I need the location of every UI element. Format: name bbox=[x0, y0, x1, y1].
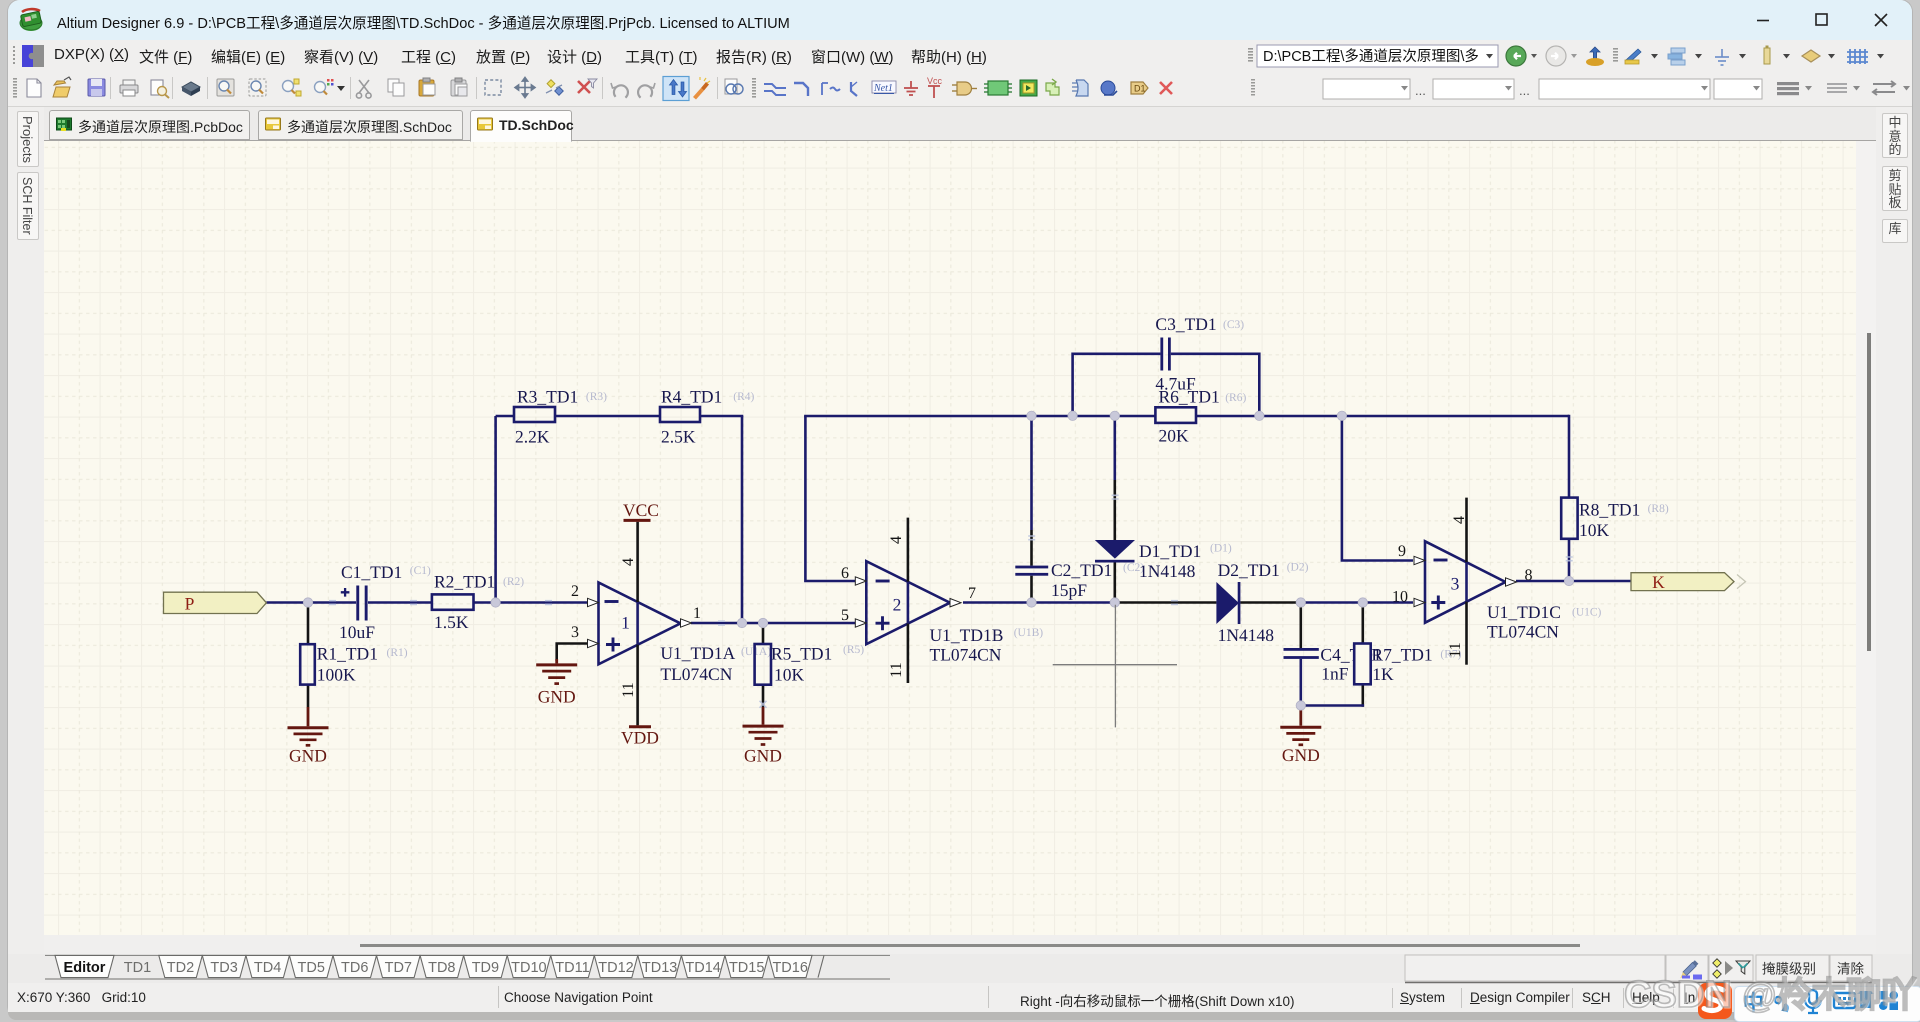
pin 6 arrowhead bbox=[855, 577, 866, 585]
right half of toolbar row2 bbox=[1243, 73, 1912, 106]
svg-text:2.2K: 2.2K bbox=[515, 427, 550, 447]
svg-text:10K: 10K bbox=[774, 665, 805, 685]
wire feedback drop to U1A output bbox=[741, 416, 744, 623]
svg-text:Net1: Net1 bbox=[873, 83, 893, 94]
SCHEMATIC-SVG bbox=[360, 944, 1580, 947]
svg-text:(C1): (C1) bbox=[410, 565, 431, 577]
pin 1 arrowhead bbox=[681, 619, 692, 627]
pin 5 arrowhead bbox=[855, 619, 866, 627]
svg-text:TD8: TD8 bbox=[428, 960, 455, 976]
svg-text:(D2): (D2) bbox=[1287, 562, 1309, 574]
svg-text:15pF: 15pF bbox=[1051, 580, 1087, 600]
diode D1 bbox=[1095, 540, 1135, 559]
wire C2 lower lead bbox=[1030, 576, 1033, 603]
pin 10 arrowhead bbox=[1414, 598, 1425, 606]
svg-text:1N4148: 1N4148 bbox=[1218, 625, 1275, 645]
svg-text:(C3): (C3) bbox=[1223, 319, 1244, 331]
svg-text:11: 11 bbox=[888, 662, 905, 677]
TITLEBAR-CONTENT bbox=[12, 44, 46, 68]
capacitor C4 bbox=[1284, 648, 1319, 651]
wire U1B output to D2 bbox=[963, 601, 1115, 604]
svg-text:R7_TD1: R7_TD1 bbox=[1371, 645, 1432, 665]
svg-text:D1_TD1: D1_TD1 bbox=[1139, 541, 1201, 561]
svg-text:10uF: 10uF bbox=[339, 622, 375, 642]
svg-text:VDD: VDD bbox=[621, 728, 659, 748]
svg-text:(R8): (R8) bbox=[1648, 503, 1669, 515]
CSDN watermark bbox=[1624, 967, 1920, 1018]
ground at C4 R7 bbox=[1280, 707, 1321, 745]
svg-text:GND: GND bbox=[744, 746, 782, 766]
svg-text:C3_TD1: C3_TD1 bbox=[1155, 314, 1216, 334]
pin 3 arrowhead bbox=[588, 639, 599, 647]
svg-text:R1_TD1: R1_TD1 bbox=[317, 644, 378, 664]
svg-text:TD12: TD12 bbox=[598, 960, 633, 976]
wire C2 upper lead bbox=[1030, 415, 1033, 530]
svg-text:TD7: TD7 bbox=[385, 960, 412, 976]
svg-text:C2_TD1: C2_TD1 bbox=[1051, 560, 1112, 580]
svg-text:4: 4 bbox=[620, 558, 637, 566]
capacitor C3 bbox=[1160, 338, 1163, 371]
print/preview bbox=[120, 85, 138, 93]
MENUBAR-CONTENT bbox=[8, 73, 1912, 106]
svg-text:U1_TD1A: U1_TD1A bbox=[660, 643, 735, 663]
wire U1C output to port K bbox=[1516, 580, 1631, 583]
svg-text:Editor: Editor bbox=[64, 960, 106, 976]
svg-text:11: 11 bbox=[1447, 642, 1464, 657]
svg-text:TD11: TD11 bbox=[555, 960, 589, 976]
svg-text:1: 1 bbox=[621, 613, 630, 633]
svg-text:U1_TD1C: U1_TD1C bbox=[1487, 602, 1561, 622]
wire R3 R4 feedback top bbox=[496, 415, 744, 418]
svg-text:TL074CN: TL074CN bbox=[930, 644, 1002, 664]
svg-text:11: 11 bbox=[620, 682, 637, 697]
node bus/C2 junction bbox=[1027, 411, 1036, 420]
power port VDD bbox=[629, 725, 651, 728]
svg-text:TD16: TD16 bbox=[772, 960, 807, 976]
svg-text:R5_TD1: R5_TD1 bbox=[771, 644, 832, 664]
svg-text:TL074CN: TL074CN bbox=[660, 664, 732, 684]
svg-text:(U1C): (U1C) bbox=[1572, 607, 1602, 619]
svg-text:2.5K: 2.5K bbox=[661, 427, 696, 447]
svg-text:(R3): (R3) bbox=[586, 391, 607, 403]
svg-text:10K: 10K bbox=[1579, 520, 1610, 540]
pin 8 arrowhead bbox=[1506, 578, 1517, 586]
pin 7 arrowhead bbox=[950, 599, 961, 607]
wire P node bbox=[266, 601, 356, 604]
svg-text:1N4148: 1N4148 bbox=[1139, 561, 1196, 581]
svg-text:8: 8 bbox=[1525, 567, 1533, 584]
junction dots bbox=[303, 411, 1573, 710]
svg-text:5: 5 bbox=[841, 607, 849, 624]
resistor R1 bbox=[300, 644, 315, 684]
svg-text:3: 3 bbox=[571, 624, 579, 641]
svg-text:6: 6 bbox=[841, 565, 849, 582]
svg-text:20K: 20K bbox=[1159, 426, 1190, 446]
svg-text:10: 10 bbox=[1392, 589, 1408, 606]
svg-text:4: 4 bbox=[888, 536, 905, 544]
svg-text:(R6): (R6) bbox=[1225, 392, 1246, 404]
svg-text:TD9: TD9 bbox=[472, 960, 499, 976]
wire C1 to R2 bbox=[368, 601, 432, 604]
svg-text:C1_TD1: C1_TD1 bbox=[341, 562, 402, 582]
wire C4 lower lead bbox=[1300, 659, 1303, 706]
svg-text:TD4: TD4 bbox=[254, 960, 281, 976]
svg-text:...: ... bbox=[1415, 83, 1426, 98]
svg-text:(U1B): (U1B) bbox=[1014, 627, 1044, 639]
port K bbox=[1631, 573, 1734, 591]
resistor R6 bbox=[1155, 407, 1196, 423]
op-amp U1B bbox=[866, 561, 950, 644]
svg-text:TD3: TD3 bbox=[210, 960, 237, 976]
resistor R5 bbox=[755, 644, 771, 685]
new / open / save bbox=[27, 79, 41, 97]
resistor R7 bbox=[1354, 644, 1371, 685]
wire R1 bottom lead bbox=[307, 685, 310, 707]
svg-text:GND: GND bbox=[538, 687, 576, 707]
wire C4 node to U1C pin10 bbox=[1301, 601, 1413, 604]
svg-text:TD15: TD15 bbox=[729, 960, 764, 976]
wire R5 top lead bbox=[762, 623, 765, 644]
op-amp U1A bbox=[599, 583, 681, 665]
resistor R8 bbox=[1561, 498, 1577, 539]
DOCTABS-CONTENT bbox=[17, 111, 39, 167]
node U1A out/R5 junction bbox=[758, 618, 767, 627]
pin 9 arrowhead bbox=[1414, 556, 1425, 564]
svg-text:(R2): (R2) bbox=[503, 576, 524, 588]
node R8/port K junction bbox=[1564, 576, 1573, 585]
svg-text:(U1A): (U1A) bbox=[741, 646, 771, 658]
capacitor C2 bbox=[1015, 566, 1048, 569]
svg-text:TD5: TD5 bbox=[297, 960, 324, 976]
op-amp U1C bbox=[1425, 541, 1506, 622]
wire D1 upper lead bbox=[1114, 415, 1117, 480]
svg-text:1: 1 bbox=[693, 605, 701, 622]
wire R7 bottom lead bbox=[1362, 684, 1365, 707]
wire R5 bottom lead bbox=[762, 685, 765, 707]
svg-text:...: ... bbox=[1519, 83, 1530, 98]
wire node A riser bbox=[494, 416, 497, 603]
svg-text:100K: 100K bbox=[317, 665, 356, 685]
svg-text:1nF: 1nF bbox=[1321, 664, 1349, 684]
wire R2 to U1A pin2 bbox=[474, 601, 589, 604]
3d view bbox=[182, 82, 200, 92]
svg-text:K: K bbox=[1652, 572, 1665, 592]
svg-text:(R4): (R4) bbox=[733, 391, 754, 403]
svg-text:9: 9 bbox=[1398, 543, 1406, 560]
ground at R1 bbox=[288, 707, 329, 745]
wire C3 loop bbox=[1073, 354, 1260, 416]
wire C4 upper lead bbox=[1300, 603, 1303, 649]
svg-text:2: 2 bbox=[893, 595, 902, 615]
wire grid tick marks bbox=[329, 495, 1573, 708]
svg-text:2: 2 bbox=[571, 583, 579, 600]
ground at R5 bbox=[743, 707, 784, 745]
svg-text:(D1): (D1) bbox=[1210, 543, 1232, 555]
node bus/pin9 junction bbox=[1337, 411, 1346, 420]
svg-text:U1_TD1B: U1_TD1B bbox=[930, 625, 1004, 645]
resistor R3 bbox=[514, 407, 555, 422]
svg-text:P: P bbox=[185, 593, 195, 613]
capacitor C1 bbox=[356, 586, 359, 621]
resistor R4 bbox=[660, 407, 700, 422]
cursor crosshair bbox=[1053, 605, 1177, 728]
wire U1B feedback loop left bbox=[805, 416, 856, 581]
svg-text:TD6: TD6 bbox=[341, 960, 368, 976]
node D2/C4 junction bbox=[1296, 598, 1305, 607]
node R7 top junction bbox=[1358, 598, 1367, 607]
svg-text:1K: 1K bbox=[1372, 664, 1394, 684]
wire bus drop to U1C pin9 bbox=[1342, 416, 1413, 561]
wire U1A pin3 to ground bbox=[557, 644, 588, 662]
svg-text:VCC: VCC bbox=[623, 500, 659, 520]
svg-text:TD13: TD13 bbox=[642, 960, 677, 976]
node bus/C3 left junction bbox=[1068, 411, 1077, 420]
svg-text:TD14: TD14 bbox=[685, 960, 720, 976]
wire R8 to output node bbox=[1568, 539, 1571, 581]
svg-text:4: 4 bbox=[1451, 516, 1468, 524]
port K ghost arrow bbox=[1737, 575, 1746, 589]
port P bbox=[164, 592, 267, 613]
TOOLBAR-CONTENT bbox=[49, 110, 250, 140]
zoom group bbox=[217, 79, 234, 96]
svg-text:TD10: TD10 bbox=[511, 960, 546, 976]
diode D2 bbox=[1216, 582, 1239, 624]
wire D2 cathode to C4 node bbox=[1240, 601, 1301, 604]
node bus/C3 right junction bbox=[1255, 411, 1264, 420]
wire bus to R8 bbox=[1568, 415, 1571, 498]
node C4/R7 gnd junction bbox=[1296, 701, 1305, 710]
svg-text:GND: GND bbox=[1282, 745, 1320, 765]
wire D1 lower lead bbox=[1114, 563, 1117, 603]
svg-text:D1: D1 bbox=[1134, 84, 1146, 94]
svg-text:TD2: TD2 bbox=[167, 960, 194, 976]
svg-text:4.7uF: 4.7uF bbox=[1155, 374, 1196, 394]
svg-text:D:\PCB工程\多通道层次原理图\多: D:\PCB工程\多通道层次原理图\多 bbox=[1263, 48, 1479, 65]
svg-text:R3_TD1: R3_TD1 bbox=[517, 387, 578, 407]
wire C4 R7 ground link bbox=[1301, 704, 1364, 707]
SIDEBARS-CONTENT bbox=[44, 141, 1856, 935]
svg-text:R4_TD1: R4_TD1 bbox=[661, 387, 722, 407]
node out/D1 junction bbox=[1110, 598, 1119, 607]
svg-text:D2_TD1: D2_TD1 bbox=[1218, 560, 1280, 580]
svg-text:R2_TD1: R2_TD1 bbox=[434, 572, 495, 592]
wire U1A output to U1B pin5 bbox=[691, 622, 856, 625]
node R2/feedback junction bbox=[491, 598, 500, 607]
svg-text:TL074CN: TL074CN bbox=[1487, 622, 1559, 642]
mask toolbar bbox=[1405, 955, 1872, 981]
svg-text:Vcc: Vcc bbox=[927, 76, 943, 86]
node U1A out/feedback junction bbox=[737, 618, 746, 627]
svg-text:(R5): (R5) bbox=[843, 644, 864, 656]
wire R7 top lead bbox=[1362, 603, 1365, 644]
svg-text:TD1: TD1 bbox=[124, 960, 151, 976]
node P/R1 junction bbox=[303, 598, 312, 607]
wiring tools bbox=[764, 84, 786, 95]
node out/C2 junction bbox=[1027, 598, 1036, 607]
resistor R2 bbox=[432, 594, 474, 609]
address toolbar (right of menu) bbox=[1243, 40, 1912, 73]
node bus/D1 junction bbox=[1110, 411, 1119, 420]
svg-text:R8_TD1: R8_TD1 bbox=[1579, 500, 1640, 520]
svg-text:7: 7 bbox=[968, 585, 976, 602]
pin 2 arrowhead bbox=[588, 598, 599, 606]
svg-text:(R1): (R1) bbox=[387, 647, 408, 659]
ground at U1A pin3 bbox=[536, 659, 577, 684]
wire R1 top lead bbox=[307, 603, 310, 645]
svg-text:3: 3 bbox=[1451, 574, 1460, 594]
svg-text:GND: GND bbox=[289, 746, 327, 766]
wire feedback bus bbox=[804, 415, 1569, 418]
sogou input bar bbox=[1734, 986, 1920, 1022]
cut/copy/paste bbox=[356, 80, 371, 98]
svg-text:1.5K: 1.5K bbox=[434, 612, 469, 632]
